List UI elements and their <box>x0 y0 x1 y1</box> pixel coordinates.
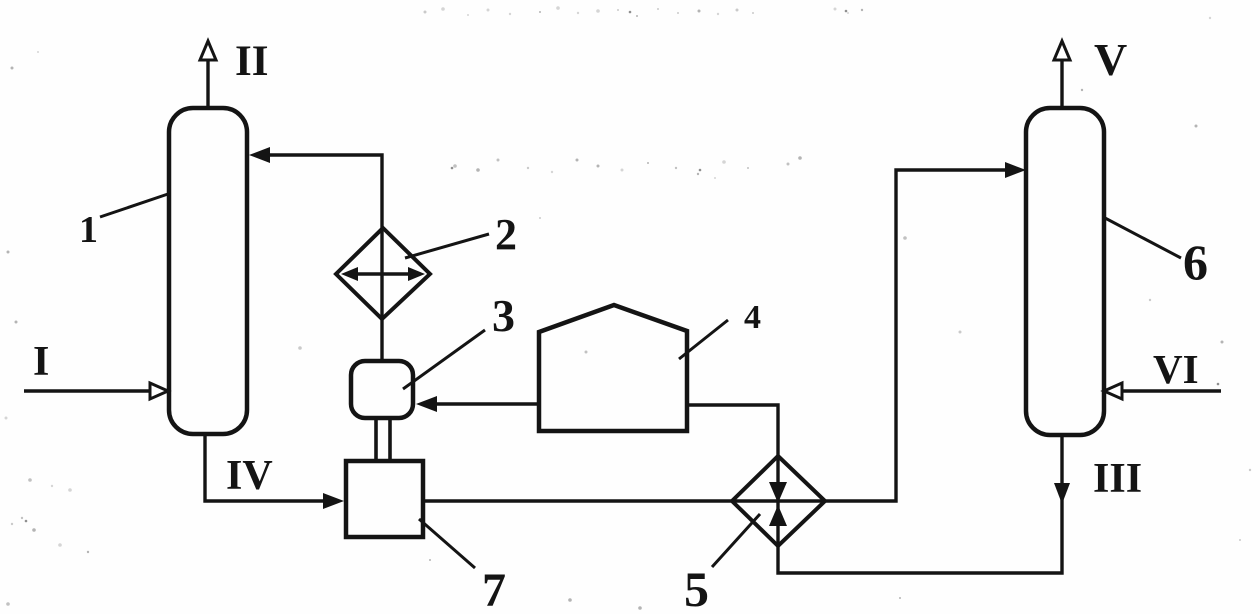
column 1 <box>169 108 247 434</box>
svg-text:3: 3 <box>492 290 515 341</box>
leader line for label 6 <box>1105 218 1181 258</box>
double-headed arrow inside exchanger 2 <box>348 272 418 275</box>
svg-text:5: 5 <box>684 561 709 614</box>
wire: overhead line of column 6 <box>1060 59 1063 107</box>
valve 5 (diamond) <box>732 456 825 546</box>
valve triangles <box>769 482 787 503</box>
unit 7 (square box) <box>346 461 423 537</box>
wire: furnace 4 to valve 5 <box>687 405 778 458</box>
arrowhead (open) stream VI into column 6 <box>1104 383 1122 399</box>
column 6 <box>1026 108 1104 435</box>
wire: stream I feed line <box>24 389 152 392</box>
wire: unit 7 to column 6 (long line) <box>425 170 1010 501</box>
wire: reflux from exchanger 2 to column 1 top <box>266 155 382 229</box>
leader line for label 7 <box>419 519 475 568</box>
coupling between vessel 3 and unit 7 (double line) <box>374 420 378 459</box>
svg-text:2: 2 <box>495 210 517 259</box>
furnace 4 (pentagon) <box>539 305 687 431</box>
wire: column 6 bottoms (stream III) down, left, up into valve 5 <box>778 437 1062 573</box>
arrowhead (solid) into vessel 3 <box>416 396 437 412</box>
wire: from furnace 4 into vessel 3 <box>432 402 539 405</box>
arrowhead (solid) into unit 7 <box>323 493 344 509</box>
wire through exchanger 2 <box>380 228 383 360</box>
leader line for label 4 <box>679 320 728 359</box>
svg-text:1: 1 <box>79 209 98 251</box>
arrowhead (solid) pointing down on stream III <box>1054 483 1070 504</box>
svg-text:IV: IV <box>226 453 273 499</box>
leader line for label 3 <box>403 330 485 389</box>
arrowhead (solid) into column 1 <box>249 147 270 163</box>
vessel 3 (rounded box) <box>351 361 413 418</box>
wire through valve 5 vertical <box>776 456 779 546</box>
wire: overhead line of column 1 <box>206 59 209 107</box>
leader line for label 2 <box>405 234 489 258</box>
svg-text:V: V <box>1094 34 1127 85</box>
arrowhead (open) stream V <box>1054 41 1070 60</box>
svg-text:4: 4 <box>744 299 761 336</box>
wire: column 1 bottoms (stream IV) to unit 7 <box>205 436 330 501</box>
svg-text:6: 6 <box>1183 234 1208 290</box>
leader line for label 5 <box>712 514 760 567</box>
arrowhead (solid) into column 6 <box>1005 162 1026 178</box>
svg-text:I: I <box>33 339 49 385</box>
arrowhead (open) stream II <box>200 41 216 60</box>
leader line for label 1 <box>100 194 168 217</box>
svg-text:VI: VI <box>1153 346 1199 392</box>
svg-text:II: II <box>235 38 268 85</box>
svg-text:III: III <box>1093 456 1142 502</box>
arrowhead (open) stream I into column 1 <box>150 383 168 399</box>
heat exchanger 2 (diamond) <box>336 228 430 319</box>
svg-text:7: 7 <box>482 564 506 614</box>
wire: stream VI feed <box>1120 389 1221 392</box>
